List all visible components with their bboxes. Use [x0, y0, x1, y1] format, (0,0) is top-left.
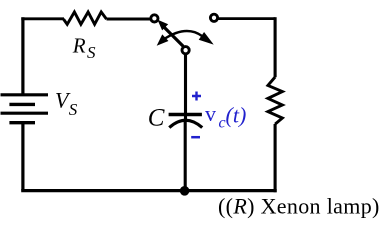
wire top-left horizontal (corner to resistor RS) — [21, 17, 64, 20]
switch blade arrowhead — [158, 21, 167, 30]
switch motion arc — [164, 31, 203, 39]
battery VS bottom short plate — [9, 121, 35, 124]
wire left vertical (top-left corner down to battery) — [21, 17, 24, 93]
svg-text:((R) Xenon lamp): ((R) Xenon lamp) — [218, 194, 380, 219]
svg-text:C: C — [148, 105, 165, 132]
wire right vertical upper (corner to lamp resistor) — [274, 17, 277, 77]
resistor RS zigzag — [64, 12, 107, 24]
svg-text:v: v — [205, 101, 216, 126]
wire switch right terminal to top-right corner — [218, 17, 276, 20]
svg-text:R: R — [72, 34, 86, 58]
svg-text:(t): (t) — [226, 103, 247, 128]
switch pole pivot circle — [182, 47, 189, 54]
battery VS upper short plate — [9, 103, 35, 106]
wire right vertical lower (lamp resistor to bottom rail) — [274, 124, 277, 192]
switch right terminal circle — [210, 14, 217, 21]
switch left terminal circle — [151, 15, 158, 22]
resistor R (xenon lamp) zigzag — [268, 77, 283, 124]
minus sign (blue) — [191, 136, 200, 139]
svg-text:S: S — [69, 100, 78, 119]
switch motion arc left arrowhead — [158, 35, 168, 45]
capacitor C top plate — [169, 113, 202, 116]
battery VS lower long plate — [1, 112, 49, 115]
switch blade — [164, 27, 184, 47]
wire battery bottom lead — [21, 123, 24, 191]
switch motion arc right arrowhead — [200, 33, 213, 44]
wire switch pole down to capacitor — [184, 53, 187, 119]
wire capacitor to bottom junction — [184, 122, 187, 192]
svg-text:S: S — [87, 43, 96, 62]
capacitor C curved bottom plate — [169, 120, 202, 127]
wire resistor RS to switch left terminal — [107, 18, 152, 21]
plus sign (blue) — [192, 92, 201, 101]
battery VS top long plate — [1, 93, 49, 96]
bottom rail wire — [21, 189, 277, 192]
junction node dot — [180, 186, 190, 196]
